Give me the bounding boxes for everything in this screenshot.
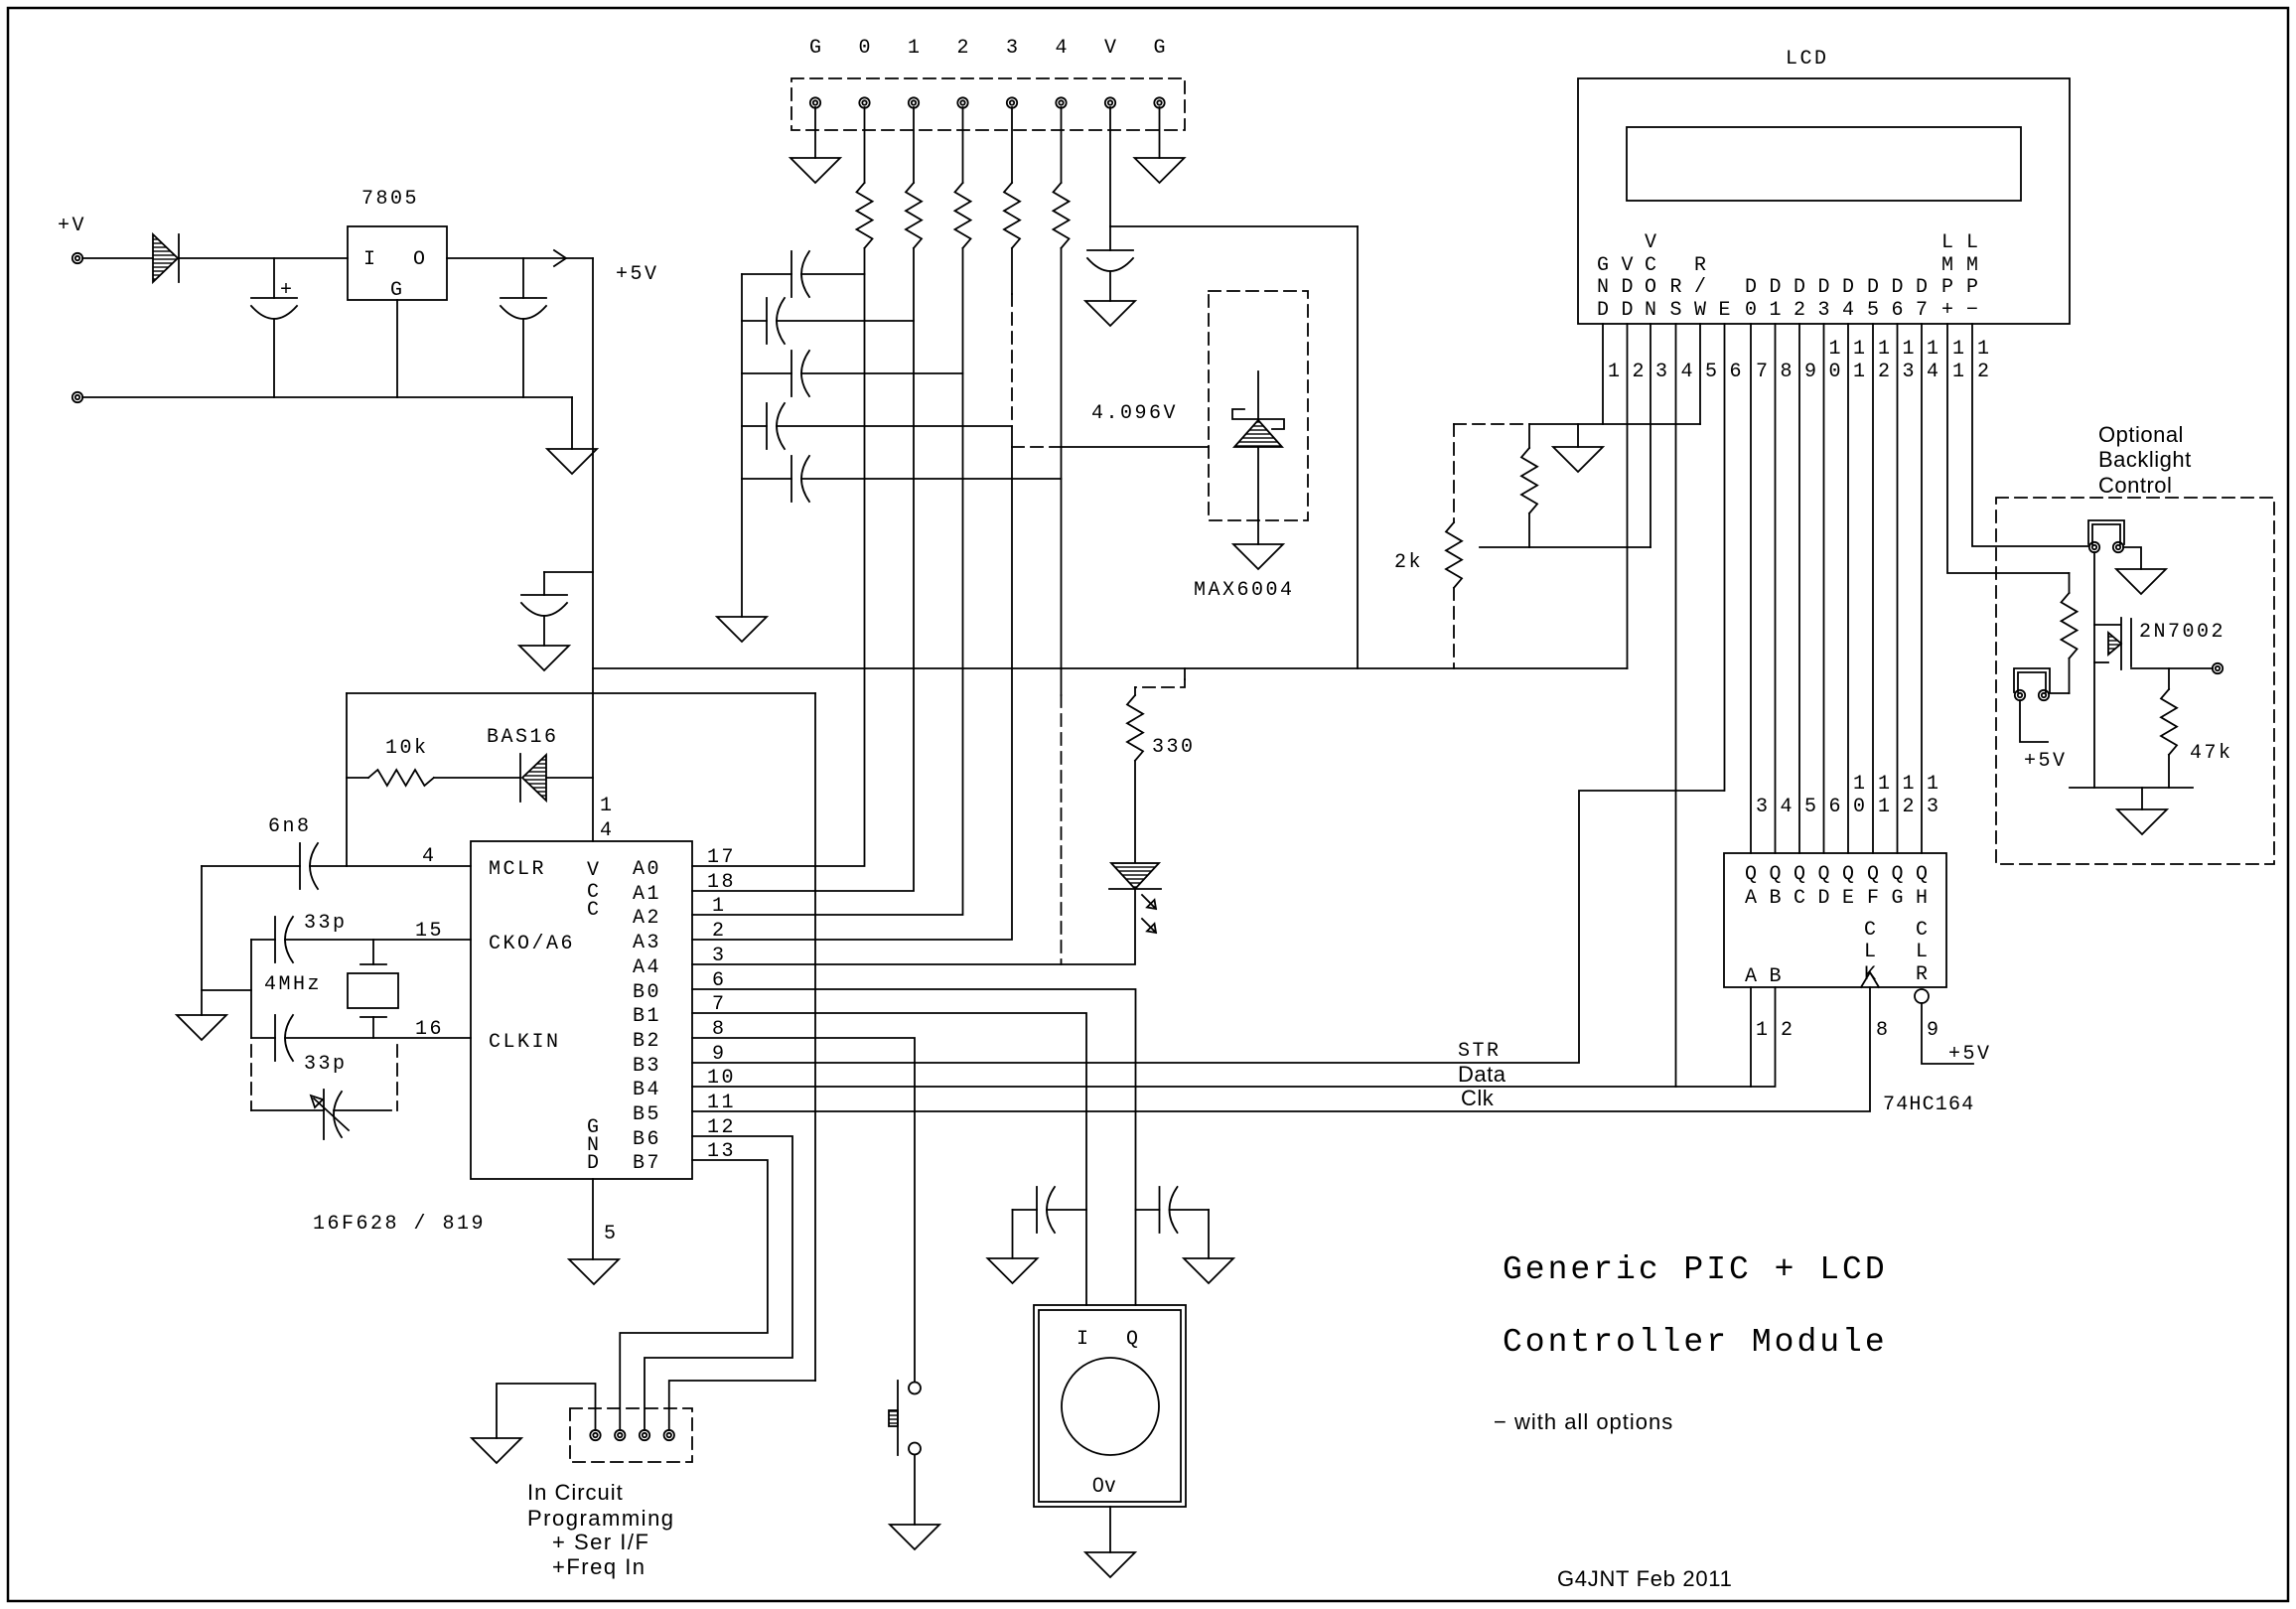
capacitor C6 input filter bbox=[742, 372, 791, 374]
wire header pin 2 stub bbox=[962, 107, 964, 183]
wire MCLR row bbox=[202, 865, 300, 867]
wire contrast top dashed bbox=[1454, 423, 1529, 425]
svg-text:2k: 2k bbox=[1394, 551, 1423, 574]
jumper J3 backlight enable bbox=[2088, 520, 2124, 544]
svg-text:2: 2 bbox=[956, 37, 968, 60]
svg-text:V: V bbox=[1645, 231, 1656, 254]
svg-text:+V: +V bbox=[58, 215, 86, 237]
svg-text:D: D bbox=[1745, 276, 1757, 299]
svg-text:W: W bbox=[1694, 299, 1706, 322]
backlight dashed box bbox=[1996, 498, 2274, 864]
wire LED branch dashed elbow bbox=[1135, 679, 1185, 687]
wire LCD D4 to 74HC164 bbox=[1847, 324, 1849, 853]
connector J2 ICSP dashed box bbox=[570, 1408, 692, 1462]
wire J3 to MOSFET drain bbox=[2093, 552, 2095, 788]
wire +5V distribution rail bbox=[593, 667, 1628, 669]
capacitor C3 decoupling bbox=[543, 572, 545, 595]
ground C15 bbox=[1184, 1258, 1233, 1283]
svg-text:B0: B0 bbox=[633, 981, 661, 1004]
wire 4.096V optional dashed link bbox=[1012, 446, 1062, 448]
svg-text:4: 4 bbox=[422, 845, 437, 868]
ICSP pin 4 pad bbox=[664, 1430, 674, 1440]
wire net A4 upper from header 4 bbox=[1061, 248, 1063, 695]
svg-text:9: 9 bbox=[1927, 1019, 1941, 1042]
svg-text:Programming: Programming bbox=[527, 1506, 675, 1531]
wire header pin 4 stub bbox=[1061, 107, 1063, 183]
svg-text:B: B bbox=[1769, 965, 1781, 988]
resistor R4 input protection bbox=[1004, 183, 1020, 248]
wire 0V rail bbox=[82, 396, 572, 398]
wire LCD D0 to 74HC164 bbox=[1750, 324, 1752, 853]
resistor R8 2k dashed leads bbox=[1453, 424, 1455, 522]
svg-text:LCD: LCD bbox=[1786, 48, 1829, 71]
svg-text:4.096V: 4.096V bbox=[1091, 402, 1178, 425]
capacitor C10 6n8 bbox=[299, 843, 301, 889]
wire LCD LMP+ pin bbox=[1947, 324, 2070, 573]
svg-text:D: D bbox=[1794, 276, 1805, 299]
switch SW1 push button bbox=[909, 1383, 921, 1394]
svg-text:5: 5 bbox=[1867, 299, 1879, 322]
svg-text:+ Ser I/F: + Ser I/F bbox=[552, 1530, 649, 1554]
svg-text:G: G bbox=[1153, 37, 1165, 60]
svg-text:1: 1 bbox=[1769, 299, 1781, 322]
ground backlight bbox=[2117, 809, 2167, 834]
svg-text:33p: 33p bbox=[304, 912, 348, 935]
LED D4 bbox=[1111, 863, 1159, 889]
diode D1 series protection bbox=[153, 234, 178, 282]
svg-text:Clk: Clk bbox=[1461, 1086, 1495, 1110]
wire MAX6004 ground stub bbox=[1257, 520, 1259, 544]
svg-text:D: D bbox=[1916, 276, 1928, 299]
capacitor C11 33p bbox=[274, 917, 276, 962]
resistor R1 input protection bbox=[857, 183, 873, 248]
wire ICSP ground pin bbox=[497, 1384, 596, 1438]
ground MAX6004 bbox=[1233, 544, 1283, 569]
ground capacitor bus bbox=[717, 617, 767, 642]
crystal X1 4MHz bbox=[372, 940, 374, 964]
wire ground bar stub bbox=[2141, 788, 2143, 809]
svg-text:1: 1 bbox=[908, 37, 920, 60]
svg-text:L: L bbox=[1916, 941, 1928, 963]
LCD display window bbox=[1627, 127, 2021, 201]
wire CLR to +5V bbox=[1922, 1003, 1973, 1064]
header pin 5 pad bbox=[1007, 97, 1017, 107]
wire MOSFET source to terminal bbox=[2131, 667, 2213, 669]
svg-text:B7: B7 bbox=[633, 1152, 661, 1175]
resistor R9 contrast pot bbox=[1528, 424, 1530, 448]
header pin 1 pad bbox=[810, 97, 820, 107]
wire header pin 1 stub bbox=[913, 107, 915, 183]
svg-text:Controller Module: Controller Module bbox=[1503, 1324, 1888, 1361]
ground J3 bbox=[2116, 569, 2166, 594]
svg-text:C: C bbox=[1864, 919, 1876, 942]
wire LCD VDD pin to +5V rail bbox=[1627, 324, 1629, 668]
svg-text:A: A bbox=[1745, 887, 1757, 910]
svg-text:Q: Q bbox=[1126, 1328, 1141, 1351]
encoder S1 box bbox=[1034, 1305, 1186, 1507]
svg-text:Control: Control bbox=[2098, 473, 2172, 498]
wire net A0 from header 0 bbox=[692, 248, 865, 866]
svg-text:V: V bbox=[587, 859, 602, 882]
svg-text:4: 4 bbox=[1927, 361, 1941, 383]
capacitor C5 input filter bbox=[742, 320, 767, 322]
svg-text:G4JNT Feb 2011: G4JNT Feb 2011 bbox=[1557, 1566, 1733, 1591]
svg-text:7: 7 bbox=[1756, 361, 1771, 383]
svg-text:+5V: +5V bbox=[1948, 1043, 1992, 1066]
svg-text:1: 1 bbox=[1977, 338, 1992, 361]
terminal 0V input bbox=[72, 392, 82, 402]
ground encoder bbox=[1085, 1552, 1135, 1577]
ICSP pin 1 pad bbox=[590, 1430, 600, 1440]
svg-text:1: 1 bbox=[1608, 361, 1623, 383]
svg-text:S: S bbox=[1669, 299, 1681, 322]
svg-text:Q: Q bbox=[1745, 863, 1757, 886]
svg-text:N: N bbox=[1645, 299, 1656, 322]
svg-text:18: 18 bbox=[707, 871, 736, 894]
svg-text:2: 2 bbox=[1878, 361, 1893, 383]
svg-text:M: M bbox=[1966, 254, 1978, 277]
wire C12 to PIC CLKIN bbox=[285, 1037, 471, 1039]
wire LCD LMP- pin bbox=[1972, 324, 2088, 546]
svg-text:I: I bbox=[363, 248, 378, 271]
ground header G8 bbox=[1135, 158, 1185, 183]
svg-text:A1: A1 bbox=[633, 883, 661, 906]
svg-text:17: 17 bbox=[707, 846, 736, 869]
svg-text:330: 330 bbox=[1152, 736, 1196, 759]
svg-text:1: 1 bbox=[1927, 773, 1941, 796]
wire net A3 optional dashed bbox=[1011, 294, 1013, 426]
svg-text:Q: Q bbox=[1916, 863, 1928, 886]
svg-text:1: 1 bbox=[1878, 338, 1893, 361]
wire LCD D6 to 74HC164 bbox=[1897, 324, 1899, 853]
wire +V to diode D1 bbox=[82, 257, 153, 259]
svg-text:3: 3 bbox=[1903, 361, 1918, 383]
svg-text:4: 4 bbox=[1055, 37, 1067, 60]
ground MCLR cap bbox=[177, 1015, 226, 1040]
svg-text:F: F bbox=[1867, 887, 1879, 910]
wire LCD GND pin bbox=[1602, 324, 1604, 424]
svg-text:D: D bbox=[1769, 276, 1781, 299]
svg-text:Q: Q bbox=[1891, 863, 1903, 886]
svg-text:3: 3 bbox=[1006, 37, 1018, 60]
svg-text:3: 3 bbox=[1655, 361, 1670, 383]
clock input wedge bbox=[1861, 972, 1879, 987]
header pin 7 pad bbox=[1105, 97, 1115, 107]
LCD module box bbox=[1578, 78, 2070, 324]
svg-text:P: P bbox=[1966, 276, 1978, 299]
svg-text:+5V: +5V bbox=[2024, 750, 2068, 773]
svg-text:1: 1 bbox=[1853, 338, 1868, 361]
ground C9 bbox=[1085, 301, 1135, 326]
header pin 2 pad bbox=[859, 97, 869, 107]
wire V rail bbox=[1110, 225, 1358, 227]
svg-text:Q: Q bbox=[1794, 863, 1805, 886]
svg-text:V: V bbox=[1621, 254, 1633, 277]
svg-text:0v: 0v bbox=[1092, 1474, 1116, 1497]
wire LCD D3 to 74HC164 bbox=[1823, 324, 1825, 853]
arrow +5V direction chevron bbox=[554, 250, 566, 266]
ground header G1 bbox=[790, 158, 840, 183]
svg-text:R: R bbox=[1694, 254, 1706, 277]
wire LCD D1 to 74HC164 bbox=[1775, 324, 1777, 853]
svg-text:I: I bbox=[1076, 1328, 1091, 1351]
wire LED branch stub bbox=[1184, 668, 1186, 679]
svg-text:2: 2 bbox=[1794, 299, 1805, 322]
wire C10 to ground bbox=[201, 866, 203, 1015]
header pin 6 pad bbox=[1056, 97, 1066, 107]
svg-text:L: L bbox=[1941, 231, 1953, 254]
wire LCD RS pin to Data bbox=[1675, 324, 1677, 1087]
svg-text:D: D bbox=[1817, 276, 1829, 299]
svg-text:B2: B2 bbox=[633, 1030, 661, 1053]
svg-text:33p: 33p bbox=[304, 1053, 348, 1076]
svg-text:4: 4 bbox=[600, 819, 615, 842]
svg-text:O: O bbox=[1645, 276, 1656, 299]
svg-text:B4: B4 bbox=[633, 1079, 661, 1101]
capacitor C12 33p bbox=[274, 1015, 276, 1061]
capacitor C15 encoder Q filter bbox=[1136, 1209, 1160, 1211]
ground power input bbox=[547, 449, 597, 474]
resistor R10 47k bbox=[2168, 668, 2170, 689]
resistor R7 10k bbox=[368, 770, 434, 786]
wire header G8 stub bbox=[1159, 107, 1161, 158]
svg-text:10k: 10k bbox=[385, 737, 429, 760]
svg-text:Q: Q bbox=[1769, 863, 1781, 886]
wire LCD E pin to STR bbox=[1724, 324, 1726, 791]
wire MCLR to ICSP top bbox=[347, 692, 815, 694]
wire net Data B4 row bbox=[692, 987, 1776, 1087]
wire header G1 stub bbox=[814, 107, 816, 158]
svg-text:E: E bbox=[1842, 887, 1854, 910]
wire B6 to ICSP bbox=[645, 1136, 792, 1430]
wire J3 to ground bbox=[2123, 547, 2141, 569]
wire CLKIN row left bbox=[251, 1037, 275, 1039]
svg-text:G: G bbox=[1597, 254, 1609, 277]
header pin 3 pad bbox=[909, 97, 919, 107]
capacitor C13 trimmer bbox=[251, 1109, 324, 1111]
svg-text:+Freq In: +Freq In bbox=[552, 1554, 646, 1579]
wire C15 ground leg bbox=[1208, 1210, 1210, 1258]
svg-text:4: 4 bbox=[1842, 299, 1854, 322]
svg-text:D: D bbox=[1597, 299, 1609, 322]
svg-text:Q: Q bbox=[1842, 863, 1854, 886]
wire C2 top bbox=[522, 258, 524, 298]
svg-text:P: P bbox=[1941, 276, 1953, 299]
wire D1 to 7805 input bbox=[180, 257, 348, 259]
svg-text:A4: A4 bbox=[633, 956, 661, 979]
svg-text:8: 8 bbox=[1781, 361, 1795, 383]
wire contrast ground row bbox=[1529, 423, 1700, 425]
svg-text:4: 4 bbox=[1781, 796, 1795, 818]
svg-text:1: 1 bbox=[1952, 361, 1967, 383]
wire C10 to PIC MCLR bbox=[310, 865, 471, 867]
ICSP pin 3 pad bbox=[640, 1430, 649, 1440]
wire 7805 ground pin bbox=[396, 300, 398, 397]
svg-text:D: D bbox=[587, 1152, 602, 1175]
svg-text:3: 3 bbox=[1817, 299, 1829, 322]
wire button to ground bbox=[914, 1455, 916, 1526]
wire contrast wiper row bbox=[1480, 546, 1650, 548]
svg-text:1: 1 bbox=[1853, 773, 1868, 796]
svg-text:6: 6 bbox=[1730, 361, 1745, 383]
wire header V column bbox=[1109, 107, 1111, 226]
svg-text:Q: Q bbox=[1817, 863, 1829, 886]
svg-text:D: D bbox=[1842, 276, 1854, 299]
wire net A1 from header 1 bbox=[692, 248, 914, 891]
wire net A4 optional dashed bbox=[1061, 695, 1063, 964]
wire B7 to ICSP bbox=[620, 1160, 768, 1430]
svg-text:D: D bbox=[1621, 276, 1633, 299]
svg-text:B5: B5 bbox=[633, 1103, 661, 1126]
svg-text:B6: B6 bbox=[633, 1128, 661, 1151]
wire 164 A input tie bbox=[1750, 987, 1752, 1087]
capacitor C4 input filter bbox=[742, 273, 791, 275]
wire V rail down to +5V rail bbox=[1357, 226, 1359, 668]
svg-text:2: 2 bbox=[1903, 796, 1918, 818]
svg-text:D: D bbox=[1817, 887, 1829, 910]
jumper J4 backlight +5V bbox=[2014, 668, 2050, 692]
wire net Clk B5 row bbox=[692, 987, 1870, 1111]
svg-text:1: 1 bbox=[1952, 338, 1967, 361]
capacitor C1 electrolytic bbox=[251, 297, 297, 299]
svg-text:0: 0 bbox=[858, 37, 870, 60]
svg-text:STR: STR bbox=[1458, 1040, 1502, 1063]
svg-text:− with all options: − with all options bbox=[1494, 1409, 1673, 1434]
wire 0V to ground bbox=[571, 397, 573, 449]
wire net STR B3 row bbox=[692, 791, 1724, 1063]
wire J4 to +5V bbox=[2020, 700, 2048, 742]
pin bubble CLR bbox=[1915, 989, 1929, 1003]
diode D3 zener 4.096V bbox=[1257, 371, 1259, 419]
svg-text:7: 7 bbox=[1916, 299, 1928, 322]
wire CKO row left bbox=[251, 939, 275, 941]
wire LED to PIC A4 row bbox=[692, 889, 1135, 964]
svg-text:In Circuit: In Circuit bbox=[527, 1480, 624, 1505]
resistor R5 input protection bbox=[1054, 183, 1070, 248]
svg-text:5: 5 bbox=[1705, 361, 1720, 383]
svg-text:V: V bbox=[1104, 37, 1116, 60]
capacitor C2 output filter bbox=[501, 297, 546, 299]
svg-text:E: E bbox=[1718, 299, 1730, 322]
wire crystal cap bus bbox=[250, 940, 252, 1038]
svg-text:Generic PIC + LCD: Generic PIC + LCD bbox=[1503, 1251, 1888, 1288]
svg-text:3: 3 bbox=[712, 945, 727, 967]
svg-text:+: + bbox=[1941, 299, 1953, 322]
wire 7805 output to +5V bbox=[447, 257, 593, 259]
svg-text:1: 1 bbox=[1927, 338, 1941, 361]
svg-text:6n8: 6n8 bbox=[268, 815, 312, 838]
svg-text:G: G bbox=[809, 37, 821, 60]
wire 330 top bbox=[1134, 687, 1136, 695]
capacitor C8 input filter bbox=[742, 478, 791, 480]
svg-text:A: A bbox=[1745, 965, 1757, 988]
svg-text:1: 1 bbox=[1903, 338, 1918, 361]
svg-text:0: 0 bbox=[1853, 796, 1868, 818]
svg-text:BAS16: BAS16 bbox=[487, 726, 559, 749]
resistor R6 330 bbox=[1127, 695, 1143, 761]
wire MCLR to ICSP vertical bbox=[814, 693, 816, 1381]
wire 10k to BAS16 bbox=[434, 777, 520, 779]
wire crystal ground tee bbox=[202, 989, 251, 991]
svg-text:3: 3 bbox=[1927, 796, 1941, 818]
wire B1 to encoder I bbox=[692, 1013, 1086, 1305]
svg-text:2N7002: 2N7002 bbox=[2139, 621, 2225, 644]
svg-text:MCLR: MCLR bbox=[489, 858, 546, 881]
wire LCD D7 to 74HC164 bbox=[1921, 324, 1923, 853]
wire B2 to button bbox=[692, 1038, 915, 1382]
wire header pin 3 stub bbox=[1011, 107, 1013, 183]
svg-text:−: − bbox=[1966, 299, 1978, 322]
svg-text:A0: A0 bbox=[633, 858, 661, 881]
wire ICSP MCLR pin bbox=[669, 1381, 815, 1430]
svg-text:Optional: Optional bbox=[2098, 422, 2184, 447]
svg-text:D: D bbox=[1891, 276, 1903, 299]
svg-text:8: 8 bbox=[1876, 1019, 1891, 1042]
svg-text:4MHz: 4MHz bbox=[264, 973, 322, 996]
ground ICSP bbox=[472, 1438, 521, 1463]
wire capacitor bus bbox=[741, 274, 743, 617]
svg-text:B1: B1 bbox=[633, 1005, 661, 1028]
svg-text:1: 1 bbox=[1878, 796, 1893, 818]
wire encoder 0v bbox=[1109, 1507, 1111, 1552]
wire junction to C1 bbox=[273, 258, 275, 298]
wire LCD D5 to 74HC164 bbox=[1872, 324, 1874, 853]
wire backlight ground bar bbox=[2070, 787, 2193, 789]
svg-text:Q: Q bbox=[1867, 863, 1879, 886]
wire BAS16 to VCC rail bbox=[546, 777, 593, 779]
svg-text:0: 0 bbox=[1745, 299, 1757, 322]
svg-text:C: C bbox=[1645, 254, 1656, 277]
wire net A3 upper from header 3 bbox=[1011, 248, 1013, 294]
svg-text:7805: 7805 bbox=[361, 188, 419, 211]
svg-text:2: 2 bbox=[1977, 361, 1992, 383]
reference U2 MAX6004 dashed box bbox=[1209, 291, 1308, 520]
svg-text:O: O bbox=[413, 248, 428, 271]
svg-text:74HC164: 74HC164 bbox=[1883, 1094, 1974, 1116]
wire MCLR vertical bbox=[346, 693, 348, 866]
svg-text:2: 2 bbox=[1781, 1019, 1795, 1042]
encoder S1 knob circle bbox=[1062, 1358, 1159, 1455]
svg-text:3: 3 bbox=[1756, 796, 1771, 818]
wire LCD R/W pin bbox=[1699, 324, 1701, 424]
svg-text:4: 4 bbox=[1681, 361, 1696, 383]
regulator U1 7805 box bbox=[348, 226, 447, 300]
resistor R3 input protection bbox=[955, 183, 971, 248]
svg-text:CKO/A6: CKO/A6 bbox=[489, 933, 575, 955]
wire PIC GND pin bbox=[592, 1179, 594, 1259]
wire net A2 from header 2 bbox=[692, 248, 963, 915]
trimmer dashed box left bbox=[250, 1045, 252, 1110]
svg-text:2: 2 bbox=[712, 920, 727, 943]
svg-text:K: K bbox=[1864, 963, 1876, 986]
svg-text:C: C bbox=[1916, 919, 1928, 942]
resistor R8 2k bbox=[1446, 522, 1462, 588]
svg-text:16F628 / 819: 16F628 / 819 bbox=[313, 1213, 486, 1236]
terminal backlight control input bbox=[2213, 663, 2223, 673]
IC U3 PIC 16F628/819 box bbox=[471, 841, 692, 1179]
ground C3 bbox=[519, 646, 569, 670]
svg-text:L: L bbox=[1864, 941, 1876, 963]
svg-text:D: D bbox=[1867, 276, 1879, 299]
svg-text:47k: 47k bbox=[2190, 742, 2233, 765]
wire header pin 0 stub bbox=[864, 107, 866, 183]
capacitor C7 input filter bbox=[742, 425, 767, 427]
ground contrast bbox=[1553, 447, 1603, 472]
svg-text:G: G bbox=[1891, 887, 1903, 910]
svg-text:2: 2 bbox=[1633, 361, 1648, 383]
ground PIC GND bbox=[569, 1259, 619, 1284]
resistor R2 input protection bbox=[906, 183, 922, 248]
